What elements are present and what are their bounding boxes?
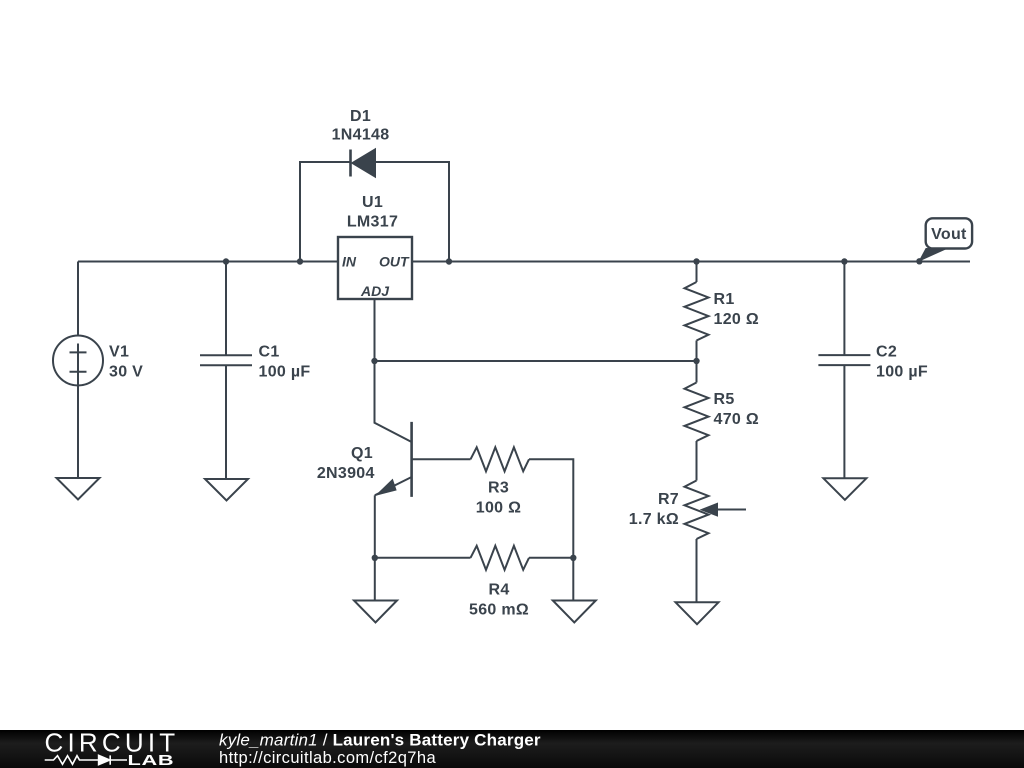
resistor R5 — [685, 383, 709, 442]
svg-text:1N4148: 1N4148 — [332, 127, 390, 144]
node C1 bus junction — [223, 258, 229, 264]
wire Q1 base lead — [412, 458, 471, 460]
svg-text:30 V: 30 V — [109, 364, 143, 381]
node ADJ-R1/R5 junction — [693, 358, 699, 364]
logo squiggle — [45, 755, 127, 765]
pin labels U1 — [342, 254, 410, 300]
svg-text:D1: D1 — [350, 108, 371, 125]
wire D1 right leg — [375, 162, 449, 262]
wire R5 bottom lead — [696, 441, 698, 481]
wire R4 right lead — [529, 557, 573, 559]
wire ADJ horizontal — [375, 360, 697, 362]
svg-text:100 µF: 100 µF — [259, 364, 311, 381]
wire ADJ vertical — [374, 299, 376, 361]
node ADJ junction — [371, 358, 377, 364]
node D1 right / OUT junction — [446, 258, 452, 264]
svg-text:ADJ: ADJ — [360, 283, 390, 299]
transistor Q1 emitter — [375, 477, 412, 495]
transistor Q1 emitter arrow — [377, 480, 397, 496]
svg-text:R1: R1 — [714, 291, 735, 308]
voltage source V1 — [53, 336, 103, 386]
svg-text:560 mΩ: 560 mΩ — [469, 602, 529, 619]
node R4 right junction — [570, 555, 576, 561]
svg-text:http://circuitlab.com/cf2q7ha: http://circuitlab.com/cf2q7ha — [219, 749, 436, 767]
svg-text:OUT: OUT — [379, 254, 410, 270]
wire V1 bottom lead — [77, 386, 79, 479]
wire V1 top lead — [77, 262, 79, 336]
wire C2 lead — [843, 262, 845, 355]
svg-text:R4: R4 — [488, 582, 509, 599]
wire R4 left lead — [375, 557, 471, 559]
svg-text:100 µF: 100 µF — [876, 364, 928, 381]
svg-text:U1: U1 — [362, 194, 383, 211]
svg-text:Q1: Q1 — [351, 445, 373, 462]
wire D1 left leg — [300, 162, 350, 262]
resistor R4 — [471, 546, 530, 570]
svg-text:120 Ω: 120 Ω — [714, 311, 759, 328]
wire R3 right lead — [529, 459, 573, 558]
node Vout junction — [916, 258, 922, 264]
node Vout flag — [919, 249, 945, 261]
wire ground lead right — [572, 558, 574, 601]
node C2 bus junction — [841, 258, 847, 264]
potentiometer R7 wiper arrow — [716, 509, 746, 511]
ground V1 — [57, 478, 100, 500]
svg-text:C1: C1 — [259, 344, 280, 361]
wire C1 lead — [225, 262, 227, 355]
wire main bus — [78, 261, 970, 263]
svg-text:C2: C2 — [876, 344, 897, 361]
ground C1 — [205, 479, 248, 501]
node D1 left junction — [297, 258, 303, 264]
wire R1 bottom lead — [696, 341, 698, 383]
transistor Q1 bar — [410, 422, 413, 497]
svg-text:R5: R5 — [714, 391, 735, 408]
svg-text:100 Ω: 100 Ω — [476, 500, 521, 517]
svg-text:Vout: Vout — [931, 226, 967, 243]
svg-text:1.7 kΩ: 1.7 kΩ — [629, 511, 679, 528]
ground R4 — [553, 601, 596, 623]
wire R7 bottom lead — [696, 539, 698, 602]
svg-text:IN: IN — [342, 254, 357, 270]
wire Q1 emitter lead — [374, 495, 376, 558]
ground Q1 emitter — [354, 601, 397, 623]
wire C2 bottom lead — [843, 366, 845, 479]
resistor R1 — [685, 282, 709, 341]
wire ground lead left — [374, 558, 376, 601]
svg-text:LAB: LAB — [128, 751, 175, 768]
svg-text:R7: R7 — [658, 491, 679, 508]
node R1 bus junction — [693, 258, 699, 264]
capacitor C2 — [818, 355, 870, 365]
node R4 left junction — [372, 555, 378, 561]
capacitor C1 — [200, 355, 252, 365]
footer bar — [0, 730, 1024, 768]
ground C2 — [823, 478, 866, 500]
svg-text:V1: V1 — [109, 344, 129, 361]
svg-text:R3: R3 — [488, 480, 509, 497]
svg-text:LM317: LM317 — [347, 214, 398, 231]
diode D1 — [349, 150, 352, 177]
op-amp U1 LM317 box — [338, 237, 412, 299]
ground R7 — [676, 602, 719, 624]
wire R1 top lead — [696, 262, 698, 283]
svg-text:470 Ω: 470 Ω — [714, 411, 759, 428]
wire C1 bottom lead — [225, 366, 227, 479]
svg-text:2N3904: 2N3904 — [317, 465, 375, 482]
svg-text:kyle_martin1 / Lauren's Batter: kyle_martin1 / Lauren's Battery Charger — [219, 731, 541, 750]
resistor R3 — [471, 447, 530, 471]
potentiometer R7 — [685, 481, 709, 540]
wire Q1 collector lead — [375, 361, 412, 442]
